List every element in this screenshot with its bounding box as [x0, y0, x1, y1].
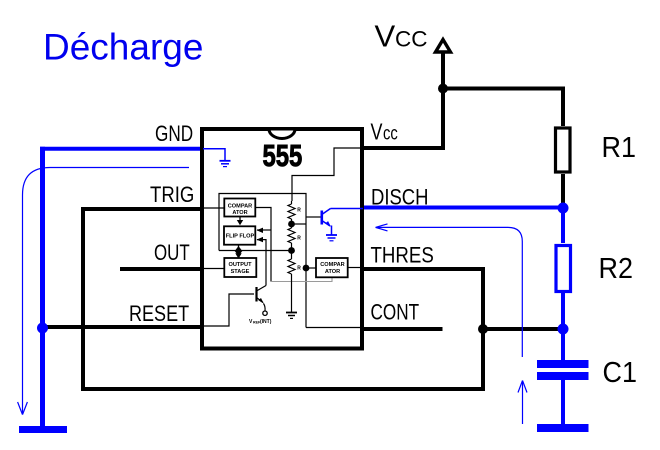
- node RESET on rail: [37, 323, 48, 334]
- internal transistor collector to flip-flop: [257, 240, 266, 286]
- internal comparator1 output: [256, 208, 272, 282]
- wire OUT stub: [120, 267, 202, 271]
- wire CONT junction to R2/C1 node: [481, 327, 563, 331]
- wire ground rail blue: [40, 147, 45, 427]
- svg-text:R: R: [297, 207, 301, 213]
- svg-text:FLIP FLOP: FLIP FLOP: [226, 234, 255, 240]
- wire R1 to DISCH node: [561, 174, 565, 208]
- IC notch: [269, 129, 295, 139]
- internal OUT wire: [203, 268, 224, 270]
- svg-text:Décharge: Décharge: [43, 27, 203, 68]
- IC U1 555 body: [202, 129, 362, 349]
- resistor R2: [556, 246, 571, 292]
- svg-text:GND: GND: [155, 122, 193, 147]
- svg-text:TRIG: TRIG: [150, 184, 194, 208]
- wire GND blue: [40, 147, 203, 151]
- internal comparator U1b box: [316, 258, 348, 277]
- internal wire to chain: [219, 250, 292, 252]
- svg-text:CC: CC: [395, 27, 428, 52]
- svg-text:OUTPUT: OUTPUT: [229, 262, 253, 268]
- node CONT junction: [478, 324, 488, 334]
- svg-text:STAGE: STAGE: [231, 269, 250, 275]
- svg-text:V: V: [371, 119, 383, 145]
- ground (left, blue): [19, 426, 67, 433]
- svg-text:COMPAR: COMPAR: [320, 262, 344, 268]
- wire DISCH blue: [362, 206, 563, 210]
- pin label Vcc: [371, 119, 399, 145]
- svg-text:C1: C1: [603, 356, 637, 388]
- internal ground (chain, black): [286, 313, 297, 319]
- node R2/C1: [558, 324, 569, 335]
- svg-text:V: V: [375, 18, 396, 53]
- transistor Q2 Vref (black): [257, 286, 267, 311]
- node VCC junction: [438, 84, 448, 94]
- svg-text:OUT: OUT: [154, 241, 190, 266]
- wire RESET: [43, 325, 202, 329]
- svg-text:CONT: CONT: [371, 301, 420, 326]
- power symbol VCC arrow: [436, 40, 451, 53]
- internal R labels: [297, 207, 301, 271]
- internal TRIG wire: [203, 207, 224, 209]
- internal flip-flop box: [224, 226, 255, 244]
- internal RESET wire: [203, 294, 254, 326]
- internal resistor chain: [288, 201, 295, 312]
- svg-text:COMPAR: COMPAR: [228, 203, 252, 209]
- wire VCC to R1: [441, 89, 563, 127]
- internal feedback (gray): [271, 278, 332, 282]
- svg-text:RESET: RESET: [129, 302, 189, 326]
- internal wiring frame: [203, 148, 362, 328]
- current arrow (left, blue): [18, 168, 189, 415]
- net label VCC: [375, 18, 428, 53]
- svg-text:R: R: [297, 235, 301, 241]
- wire C1 to ground: [561, 380, 565, 426]
- internal link FF to output stage: [238, 245, 240, 256]
- wire VCC vertical: [441, 53, 445, 150]
- svg-text:ATOR: ATOR: [325, 269, 340, 275]
- svg-text:R2: R2: [599, 252, 633, 284]
- internal Vcc wire: [292, 148, 361, 201]
- svg-text:cc: cc: [383, 123, 398, 144]
- svg-text:ATOR: ATOR: [232, 210, 247, 216]
- wire Vcc pin to VCC rail: [362, 146, 443, 150]
- wire CONT stub: [362, 327, 443, 331]
- svg-text:(INT): (INT): [260, 319, 272, 325]
- svg-text:555: 555: [263, 138, 303, 173]
- ground (C1, blue): [537, 424, 589, 432]
- internal CONT wire: [306, 327, 362, 329]
- current arrow (DISCH, blue): [376, 224, 523, 357]
- svg-text:R1: R1: [602, 131, 636, 163]
- capacitor C1: [537, 360, 589, 368]
- internal arrow comp1 to FF: [239, 216, 241, 221]
- svg-text:DISCH: DISCH: [371, 186, 428, 210]
- transistor Q1 discharge (blue): [322, 209, 363, 235]
- node DISCH/R1/R2: [558, 203, 569, 214]
- wire R2 to C1 node: [561, 293, 565, 331]
- internal comparator2 input/output: [306, 267, 317, 269]
- wire DISCH node to R2: [561, 206, 565, 243]
- internal ground (Q1, blue): [326, 235, 337, 241]
- wire node to C1: [561, 327, 565, 360]
- svg-text:R: R: [297, 265, 301, 271]
- internal comparator U1a box: [224, 199, 255, 217]
- internal chain junctions: [288, 221, 295, 228]
- resistor R1: [556, 128, 571, 172]
- internal ground (GND pin, blue): [203, 149, 231, 167]
- svg-text:THRES: THRES: [371, 244, 434, 268]
- current arrow (C1, blue): [518, 381, 527, 425]
- internal arrows into FF: [257, 228, 264, 233]
- wire TRIG/THRES outer loop: [83, 209, 483, 389]
- internal output stage box: [224, 258, 256, 277]
- internal base wire: [306, 216, 321, 218]
